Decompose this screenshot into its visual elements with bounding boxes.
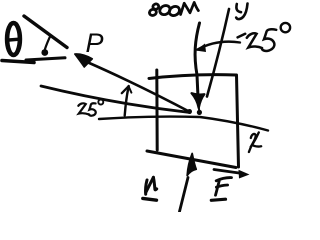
label y xyxy=(236,4,247,20)
normal force arrow N xyxy=(180,154,197,212)
label 800N xyxy=(149,2,199,17)
label N xyxy=(146,177,157,194)
theta angle pointer with dot xyxy=(41,36,50,56)
box left edge xyxy=(155,70,158,150)
horizontal reference / x axis line xyxy=(99,117,268,131)
box top edge xyxy=(149,75,236,79)
F underline xyxy=(211,199,225,200)
label 25 degrees small xyxy=(78,100,103,116)
box bottom edge xyxy=(147,151,236,168)
y axis line xyxy=(207,9,229,97)
slope line through contact xyxy=(41,86,190,113)
force arrow P xyxy=(75,54,190,112)
contact point dot xyxy=(187,109,192,114)
N underline xyxy=(143,198,157,200)
label F xyxy=(216,178,232,196)
theta angle lower line xyxy=(26,58,65,60)
25 degree arc top xyxy=(196,42,241,52)
theta angle upper line xyxy=(24,16,67,48)
label theta xyxy=(7,23,20,55)
svg-text:P: P xyxy=(86,28,104,58)
label 25 degrees top xyxy=(238,23,290,51)
force arrow 800N xyxy=(192,23,205,115)
small angle pointer arrow xyxy=(122,86,132,116)
box right edge xyxy=(237,75,239,167)
label x xyxy=(249,132,261,152)
theta underline xyxy=(2,61,34,63)
friction force arrow F xyxy=(214,170,250,179)
